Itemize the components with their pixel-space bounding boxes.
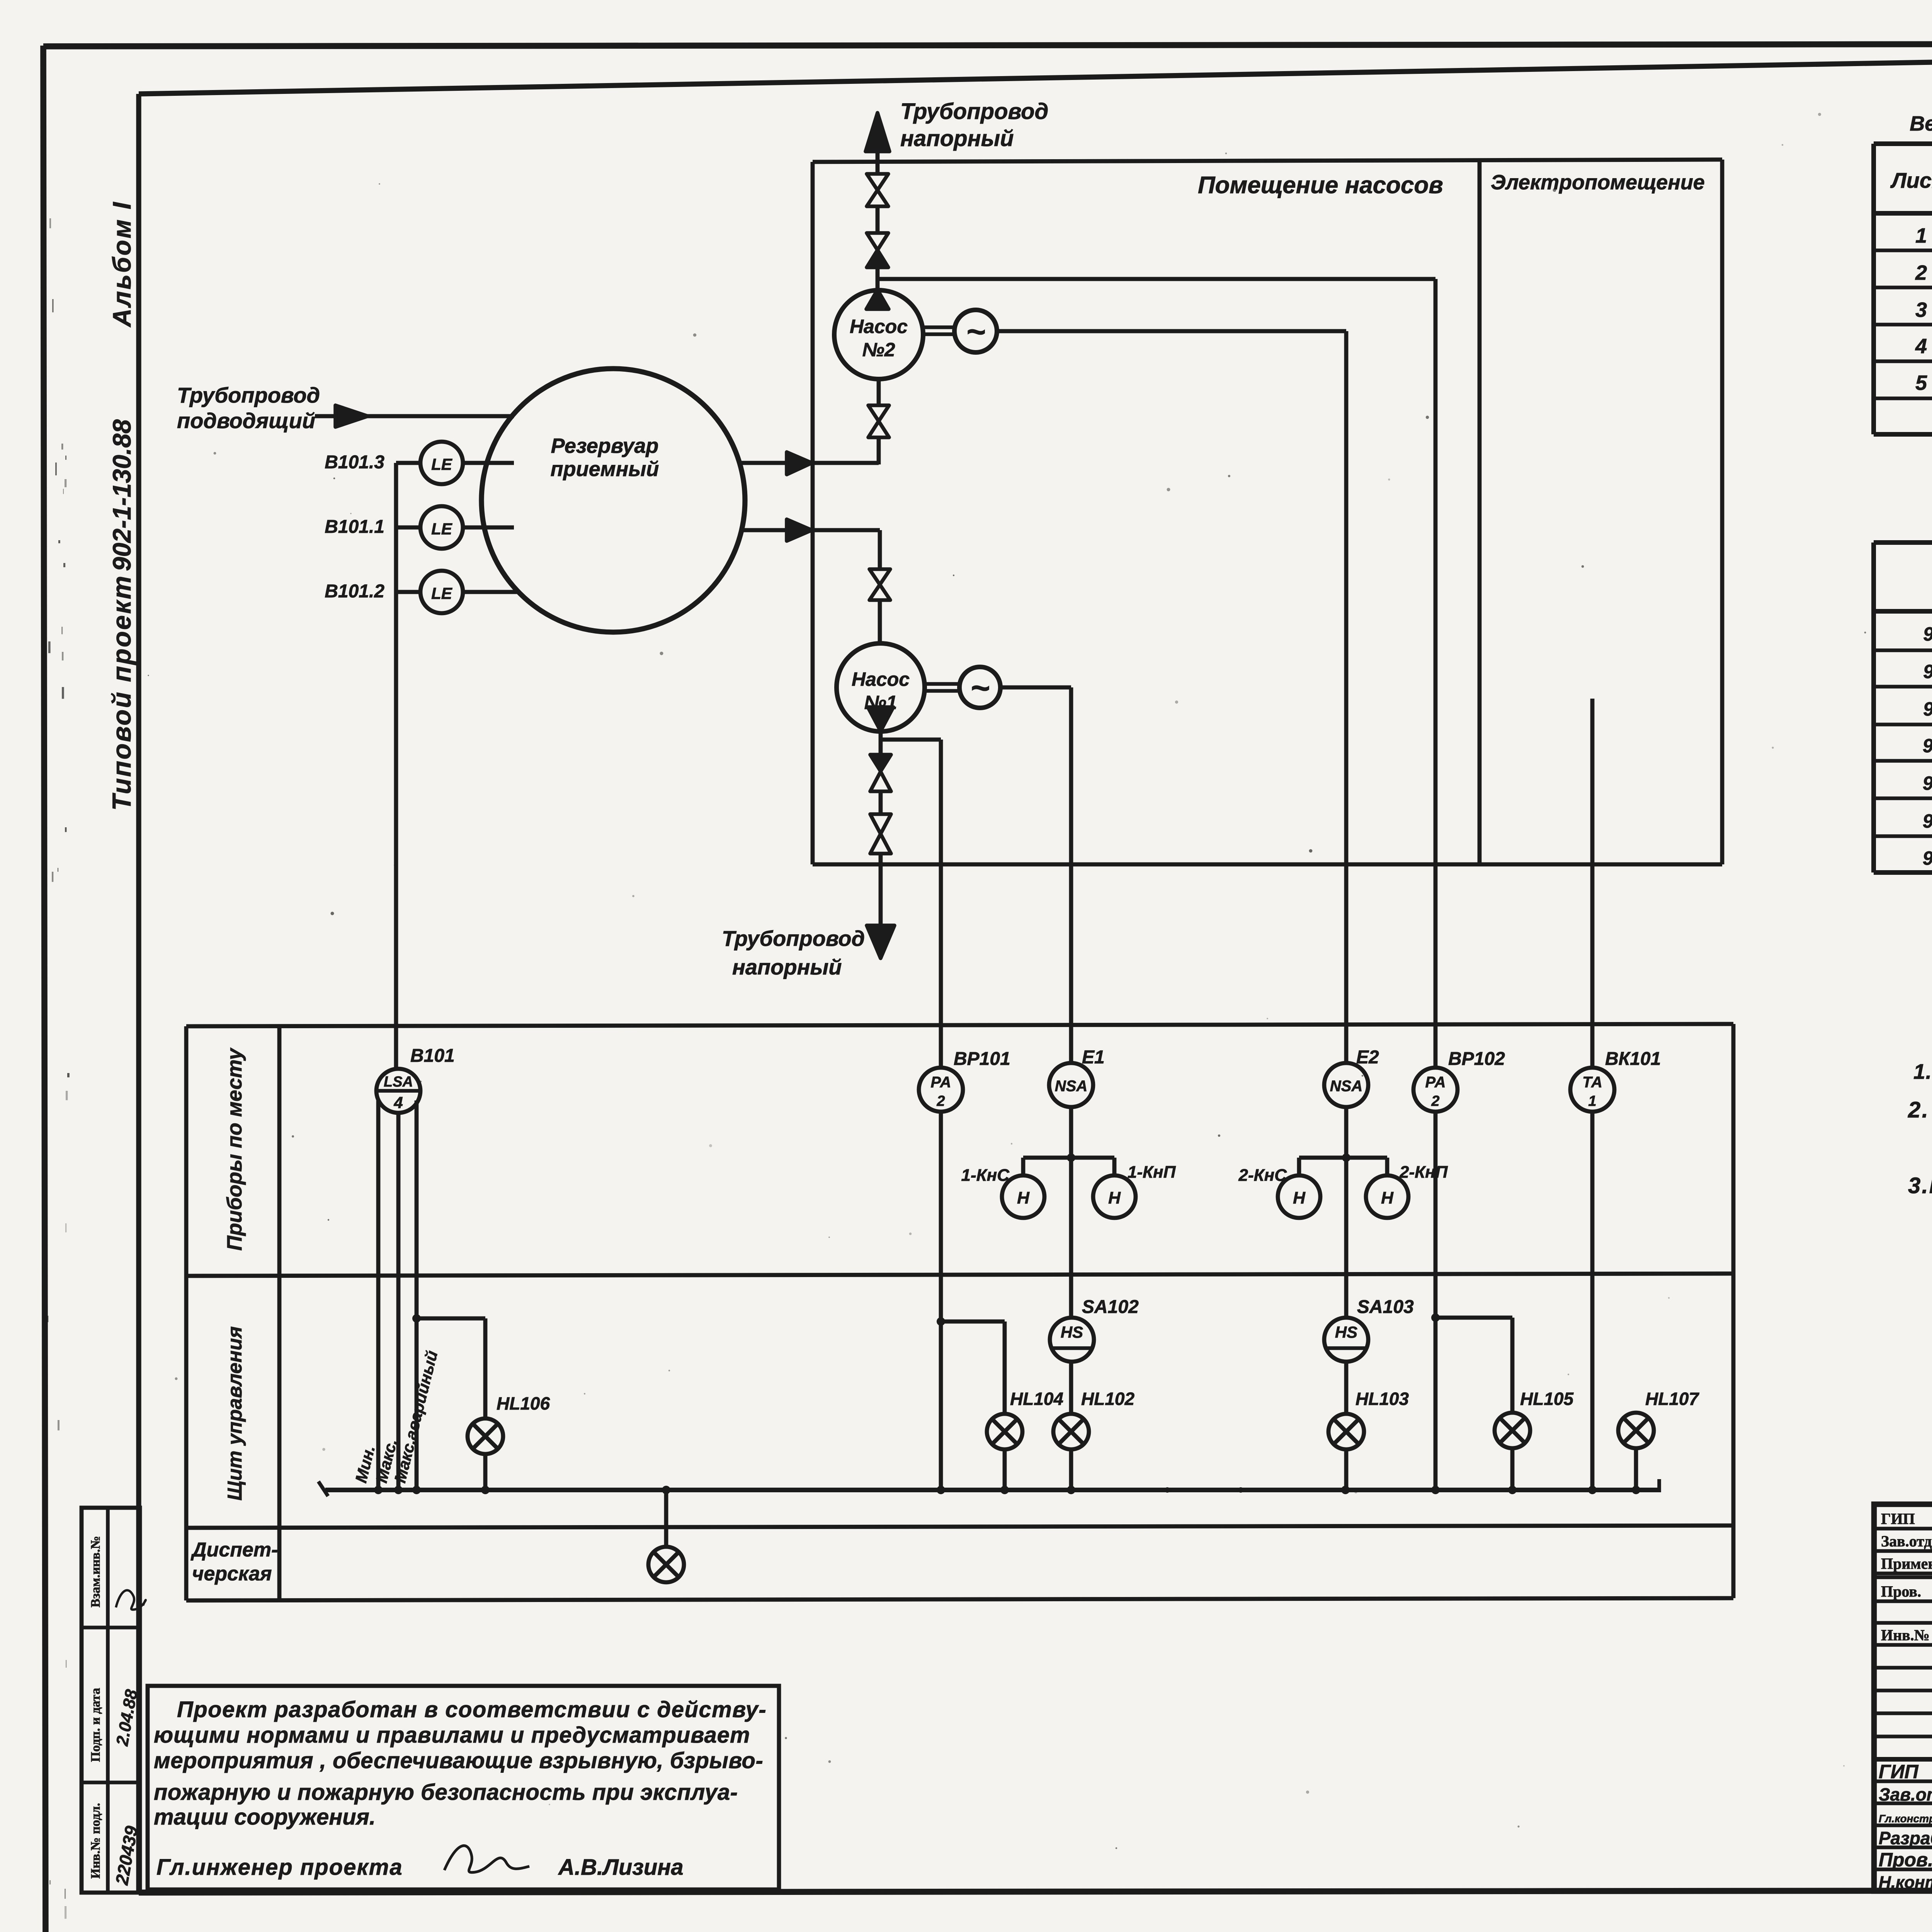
temperature alarm TA-1 (BK101) [1570,1068,1614,1112]
svg-text:Е2: Е2 [1356,1047,1379,1068]
svg-text:Примен.: Примен. [1881,1555,1932,1572]
shaft pump2-motor2 [923,327,954,334]
selector switch HS SA103 [1324,1318,1368,1362]
flow arrow at pump2 outlet [866,290,889,309]
table: Ведомость рабочих чертежей основного комплекта марки А [1874,112,1932,434]
title block grid [1874,1504,1932,1891]
pipe: pump1 discharge with branch [881,731,941,755]
svg-text:А.В.Лизина: А.В.Лизина [558,1855,684,1880]
svg-text:LE: LE [431,455,453,473]
svg-text:902-1-130.88-А.ТД4: 902-1-130.88-А.ТД4 [1923,847,1932,869]
svg-text:Гл.инженер проекта: Гл.инженер проекта [156,1855,403,1880]
svg-text:Зав.отд: Зав.отд [1879,1784,1932,1804]
svg-text:НS: НS [1061,1323,1083,1341]
wire BP102 from pump2 discharge tap [878,279,1435,1067]
reservoir outlet 2 with arrow [742,519,880,541]
level device NSA E1 [1049,1063,1093,1107]
branch to lamp HL106 [412,1314,485,1419]
svg-text:черская: черская [192,1563,272,1585]
motor M2 (~) [954,310,997,352]
svg-text:ВР101: ВР101 [954,1049,1010,1069]
svg-text:РА: РА [930,1074,951,1091]
title block printed labels [1881,1510,1932,1644]
svg-text:3: 3 [1915,298,1927,321]
stamp labels [88,1536,103,1879]
wire E2 to panel [1344,1107,1349,1318]
svg-text:ющими нормами и правилами и пр: ющими нормами и правилами и предусматрив… [154,1723,750,1748]
dispatcher lamp [648,1547,684,1582]
branch to lamp HL105 [1431,1313,1512,1413]
svg-text:НS: НS [1335,1323,1357,1341]
svg-text:В101.2: В101.2 [325,581,384,602]
svg-text:2-КнП: 2-КнП [1399,1163,1448,1182]
svg-text:Подп. и дата: Подп. и дата [88,1688,103,1762]
svg-text:902-1-130.88-А.С01: 902-1-130.88-А.С01 [1923,623,1932,645]
svg-text:Альбом I: Альбом I [107,201,136,328]
wire HL107 to bus [1634,1448,1638,1490]
receiving reservoir (Резервуар приемный) [481,369,745,632]
wire to dispatcher lamp [664,1490,668,1547]
wire Макс. contact [396,1113,401,1490]
selector switch HS SA102 [1050,1318,1094,1362]
control panel bus wire [318,1479,1659,1496]
svg-text:Помещение насосов: Помещение насосов [1198,172,1443,199]
pipe segment [879,791,883,814]
svg-text:Пров.: Пров. [1879,1849,1932,1871]
band label: Диспетчерская [190,1539,278,1585]
svg-text:тации сооружения.: тации сооружения. [154,1804,376,1830]
room boundary: Помещение насосов / Электропомещение [813,160,1722,864]
svg-text:HL104: HL104 [1010,1389,1063,1409]
label: Трубопровод напорный (bottom) [722,926,865,979]
gate valve on pump1 discharge [870,814,891,854]
wire E1 from motor M1 [1000,687,1071,1063]
project statement box [148,1686,779,1889]
wire HL104 to bus [1003,1449,1007,1490]
lamp HL105 [1495,1413,1530,1448]
table1 headers [1890,164,1932,192]
table1 rows [1915,224,1932,430]
svg-text:Е1: Е1 [1082,1047,1105,1068]
lamp HL104 [987,1414,1022,1449]
pressure alarm PA-2 (BP101) [919,1068,963,1112]
svg-text:мероприятия , обеспечивающие в: мероприятия , обеспечивающие взрывную, б… [154,1748,763,1773]
svg-text:Насос: Насос [850,316,908,337]
svg-text:1: 1 [1588,1093,1596,1109]
shaft pump1-motor1 [925,684,959,691]
project statement text [154,1697,767,1830]
svg-text:Ведомость рабочих чертежей осн: Ведомость рабочих чертежей основного ком… [1910,112,1932,135]
svg-text:Щит управления: Щит управления [224,1326,246,1500]
svg-text:LE: LE [431,520,453,538]
level sensor LE B101.1 [396,506,514,549]
svg-text:HL107: HL107 [1645,1389,1699,1409]
label: Трубопровод напорный (top) [900,99,1048,151]
svg-text:2: 2 [1915,261,1927,284]
gate valve on pump1 suction [869,569,890,600]
svg-text:Приборы по месту: Приборы по месту [223,1047,246,1251]
svg-text:~: ~ [966,313,985,350]
svg-text:Трубопровод: Трубопровод [722,926,865,951]
buttons 1-КнС / 1-КнП on E1 [1002,1153,1136,1218]
svg-text:HL102: HL102 [1081,1389,1134,1409]
wire HL103 to bus [1344,1449,1349,1490]
wire E2 from motor M2 [996,331,1346,1063]
svg-text:HL105: HL105 [1520,1389,1574,1409]
svg-text:Гл.констр.пр.: Гл.констр.пр. [1879,1813,1932,1825]
svg-text:Н: Н [1381,1189,1394,1207]
inlet pipe Трубопровод подводящий [315,405,514,427]
svg-text:Проект разработан в соответств: Проект разработан в соответствии с дейст… [177,1697,767,1722]
svg-text:1. Номера позиций даны по: 1. Номера позиций даны по [1913,1060,1932,1083]
level sensor LE B101.2 [396,571,519,613]
svg-text:SA102: SA102 [1082,1297,1139,1317]
svg-text:Инв.№: Инв.№ [1881,1626,1930,1644]
svg-text:4: 4 [1915,335,1927,358]
svg-text:NSA: NSA [1330,1078,1362,1095]
svg-text:902-1-130.88: 902-1-130.88 [107,419,136,571]
svg-text:Н: Н [1293,1189,1306,1207]
svg-text:В101.3: В101.3 [325,452,384,473]
chief engineer signature line [156,1846,684,1880]
pipe: pump1 suction vertical [878,530,882,644]
lamp HL102 [1053,1414,1089,1449]
svg-text:подводящий: подводящий [177,408,315,433]
svg-text:1: 1 [1915,224,1927,247]
svg-text:Пров.: Пров. [1881,1583,1921,1600]
svg-text:напорный: напорный [900,126,1014,151]
wire E1 to panel [1069,1107,1073,1318]
wire SA102 to lamp HL102 [1069,1362,1073,1414]
svg-text:5: 5 [1915,371,1927,395]
wire BP102 to panel [1434,1112,1438,1490]
table: Ведомость прилагаемых документов [1874,506,1932,872]
buttons 2-КнС / 2-КнП on E2 [1278,1153,1408,1218]
pump N1 (Насос №1) [837,643,925,731]
motor M1 (~) [959,667,1000,708]
label: Трубопровод подводящий [177,383,320,433]
svg-text:HL106: HL106 [497,1393,550,1413]
svg-text:Типовой проект: Типовой проект [107,575,136,811]
discharge pipe arrow down (Трубопровод напорный, bottom) [867,854,895,958]
stamp handwritten entries [111,1590,146,1887]
svg-text:LE: LE [431,584,453,602]
instrument location table grid [186,1024,1733,1600]
svg-text:ВР102: ВР102 [1448,1049,1505,1069]
svg-text:Насос: Насос [852,668,910,690]
pipe: pump2 suction [813,379,879,464]
svg-text:902-1-130.88-А.ТД2: 902-1-130.88-А.ТД2 [1923,772,1932,794]
svg-text:902-1-130. 88-А.ВМ: 902-1-130. 88-А.ВМ [1923,698,1932,720]
wire HL106 to bus [483,1454,488,1490]
svg-text:Разраб.: Разраб. [1879,1828,1932,1848]
svg-text:РА: РА [1425,1074,1446,1091]
svg-text:SA103: SA103 [1357,1297,1414,1317]
level device NSA E2 [1324,1063,1368,1107]
svg-text:902-1-130.88-А.ТД1: 902-1-130.88-А.ТД1 [1923,735,1932,757]
svg-text:1-КнП: 1-КнП [1128,1163,1176,1182]
notes 1-3 [1908,1059,1932,1198]
svg-text:2. Позиционные обозначения п: 2. Позиционные обозначения приборов даны… [1908,1097,1932,1122]
svg-text:902-1-130.88-А.С02: 902-1-130.88-А.С02 [1923,661,1932,682]
svg-text:напорный: напорный [732,955,842,979]
svg-text:Электропомещение: Электропомещение [1491,171,1705,194]
svg-text:ВК101: ВК101 [1605,1049,1661,1069]
wire BK101 to panel [1590,1112,1595,1490]
svg-text:3.Позиционные обозначения Е1: 3.Позиционные обозначения Е1. Е2 даны по… [1908,1173,1932,1198]
svg-text:В101.1: В101.1 [325,517,384,537]
wire Макс.аварийный contact [415,1100,419,1490]
svg-text:NSA: NSA [1055,1078,1087,1095]
reservoir outlet 1 with arrow [740,452,812,474]
svg-text:ГИП: ГИП [1879,1761,1919,1782]
bus junction dots [374,1486,1640,1494]
check valve on pump2 discharge [867,233,888,267]
wire HL105 to bus [1510,1448,1515,1490]
svg-text:Трубопровод: Трубопровод [177,383,320,407]
svg-text:Диспет-: Диспет- [190,1539,278,1561]
svg-text:Резервуар: Резервуар [551,434,659,457]
wire HL102 to bus [1069,1449,1073,1490]
svg-text:~: ~ [970,670,990,707]
wire SA103 to lamp HL103 [1344,1362,1349,1414]
svg-text:Трубопровод: Трубопровод [900,99,1048,124]
svg-text:2: 2 [936,1093,945,1109]
svg-text:HL103: HL103 [1355,1389,1409,1409]
gate valve on pump2 suction [868,405,889,437]
svg-text:4: 4 [393,1094,403,1112]
check valve on pump1 discharge [870,755,891,791]
pipe: pump2 discharge vertical [876,149,880,291]
svg-text:Н: Н [1108,1189,1121,1207]
wire trunk B101 level signals [394,463,398,1069]
table2 rows [1923,623,1932,869]
svg-text:Н.контр.: Н.контр. [1879,1873,1932,1892]
svg-text:Лист: Лист [1890,168,1932,192]
wire BP101 to panel [939,1112,943,1490]
left margin stamps [82,1508,140,1893]
svg-text:Зав.отд.: Зав.отд. [1881,1532,1932,1550]
title block names rows [1879,1759,1932,1893]
level sensor LE B101.3 [396,442,514,484]
pressure alarm PA-2 (BP102) [1413,1068,1458,1112]
svg-text:пожарную и пожарную безопаснос: пожарную и пожарную безопасность при экс… [154,1780,738,1805]
svg-text:№2: №2 [862,339,895,361]
svg-text:В101: В101 [410,1046,455,1066]
branch to lamp HL104 [937,1317,1005,1414]
lamp HL106 [468,1418,503,1454]
pump N2 (Насос №2) [834,290,923,379]
svg-text:Инв.№ подл.: Инв.№ подл. [88,1803,103,1879]
svg-text:ГИП: ГИП [1881,1510,1915,1527]
wire Мин. contact [376,1100,381,1490]
svg-text:2-КнС: 2-КнС [1238,1166,1287,1185]
discharge pipe arrow up (Трубопровод напорный, top) [866,113,889,151]
svg-text:1-КнС: 1-КнС [961,1166,1010,1185]
svg-text:ТА: ТА [1582,1074,1602,1091]
lamp HL103 [1328,1414,1364,1449]
lamp HL107 [1618,1413,1654,1448]
svg-text:902-1-130.88-А.ТД3: 902-1-130.88-А.ТД3 [1923,810,1932,832]
svg-text:Взам.инв.№: Взам.инв.№ [88,1536,103,1607]
level switch LSA-4 (B101) [376,1069,420,1113]
wire BP101 from pump1 discharge tap [939,740,943,1067]
svg-text:LSA: LSA [384,1074,413,1090]
svg-text:Н: Н [1017,1189,1030,1207]
svg-text:2: 2 [1431,1093,1439,1109]
wire BK101 in electro room [1590,699,1595,1067]
svg-text:приемный: приемный [551,457,659,481]
gate valve on pump2 discharge [867,174,888,206]
